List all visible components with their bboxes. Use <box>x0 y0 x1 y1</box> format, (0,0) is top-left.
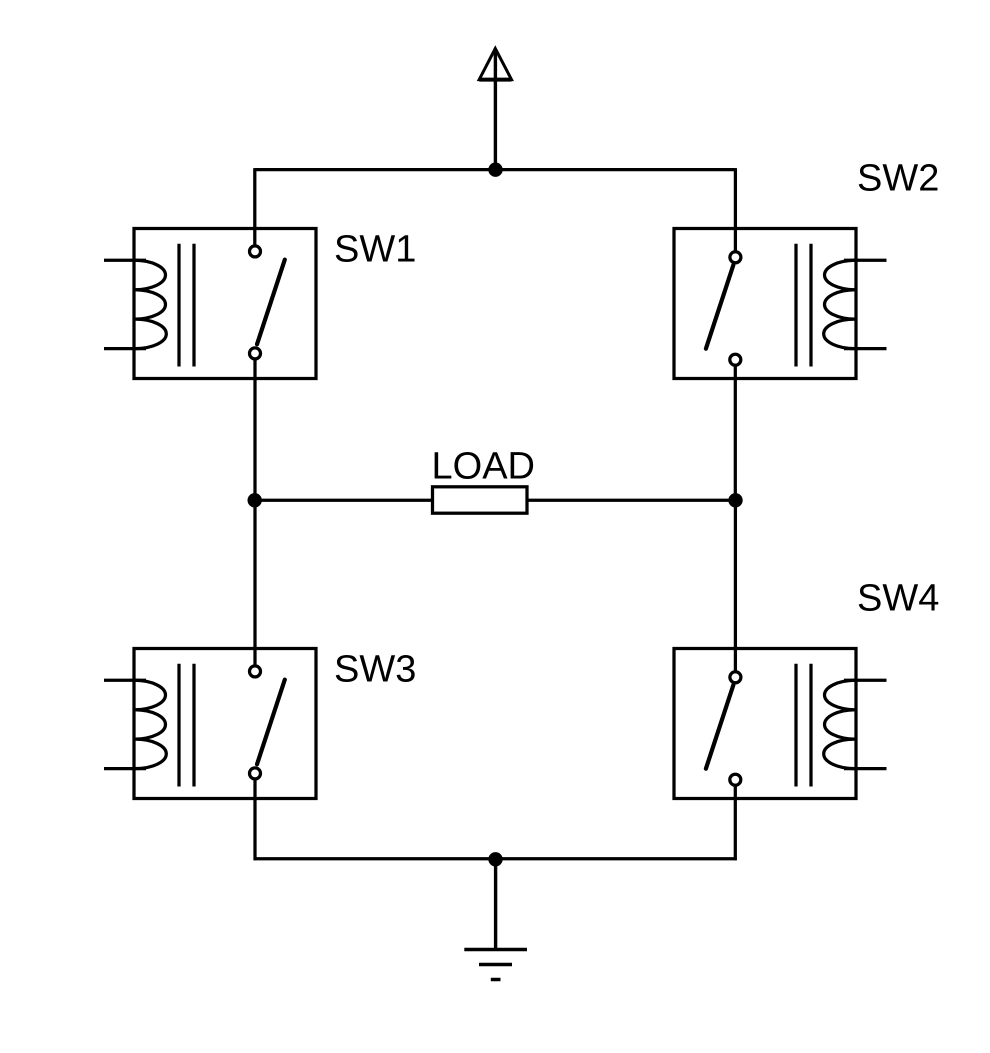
wire bottom rail <box>254 857 737 860</box>
wire bottom rail to ground <box>494 859 497 950</box>
relay SW4 <box>674 649 887 799</box>
relay SW2 <box>674 229 887 379</box>
junction right load node <box>728 493 742 507</box>
svg-text:SW3: SW3 <box>334 649 416 691</box>
wire SW1 to left load node <box>253 360 256 500</box>
svg-text:SW4: SW4 <box>857 578 939 620</box>
relay SW1 <box>104 229 316 379</box>
wire from supply arrow to top rail <box>494 52 497 170</box>
svg-text:LOAD: LOAD <box>432 446 535 488</box>
wire top rail <box>255 168 736 171</box>
wire left load node to SW3 contact <box>253 500 256 664</box>
wire SW2 to right load node <box>734 367 737 501</box>
svg-text:SW1: SW1 <box>334 229 416 271</box>
ground <box>464 950 527 980</box>
junction top node <box>488 163 502 177</box>
junction bottom node <box>488 852 502 866</box>
wire left load node to resistor <box>255 499 433 502</box>
wire SW3 to bottom rail <box>253 780 256 860</box>
wire SW4 to bottom rail <box>734 787 737 861</box>
wire top rail to SW1 contact <box>253 168 256 245</box>
relay SW3 <box>104 649 316 799</box>
power supply arrow symbol <box>479 49 511 80</box>
resistor LOAD <box>433 487 528 513</box>
wire top rail to SW2 contact <box>734 168 737 251</box>
junction left load node <box>248 493 262 507</box>
wire resistor to right load node <box>527 499 735 502</box>
svg-text:SW2: SW2 <box>857 158 939 200</box>
wire right load node to SW4 contact <box>734 500 737 670</box>
